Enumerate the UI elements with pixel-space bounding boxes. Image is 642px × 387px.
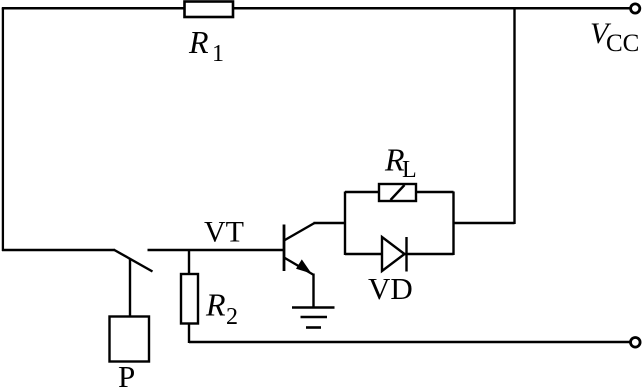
- node output terminal (circle, bottom right): [631, 338, 641, 348]
- label R1: [188, 24, 224, 67]
- resistor R1: [185, 2, 234, 18]
- svg-text:L: L: [402, 157, 417, 183]
- wire collector to load block: [314, 222, 347, 224]
- svg-text:VT: VT: [204, 216, 244, 249]
- wire bottom rail to output terminal: [189, 341, 630, 343]
- wire left vertical: [2, 8, 4, 251]
- svg-text:1: 1: [212, 41, 224, 67]
- wire load block top (through RL): [345, 191, 454, 193]
- wire base wire to R2: [188, 250, 190, 275]
- resistor R2: [181, 274, 198, 324]
- label VD: [368, 271, 413, 306]
- wire load block to VCC branch: [454, 222, 515, 224]
- label VT: [204, 216, 244, 249]
- ground: [292, 308, 335, 328]
- svg-text:R: R: [188, 24, 209, 60]
- wire top horizontal to VCC terminal: [2, 7, 630, 10]
- svg-text:VD: VD: [368, 271, 413, 306]
- wire load block bottom (through VD): [345, 253, 454, 255]
- transistor VT (NPN): [284, 223, 315, 275]
- wire emitter down: [312, 274, 314, 308]
- label P: [118, 359, 135, 387]
- wire base horizontal (switch to VT base): [148, 249, 286, 251]
- wire left bottom horizontal (to switch): [2, 249, 115, 251]
- resistor RL (relay/load, box with slash): [379, 184, 416, 201]
- wire load block left vertical: [344, 192, 346, 256]
- label R2: [205, 287, 238, 331]
- sensor P (box): [110, 317, 150, 362]
- wire load block right vertical: [452, 192, 454, 256]
- svg-text:2: 2: [226, 304, 238, 330]
- wire R2 to bottom rail: [188, 324, 190, 344]
- svg-text:CC: CC: [606, 30, 639, 57]
- wire VCC branch vertical (right): [513, 8, 515, 224]
- node VCC terminal (circle): [631, 4, 640, 13]
- diode VD: [382, 237, 407, 272]
- label RL: [384, 142, 417, 184]
- switch blade (pressure-actuated contact): [114, 250, 153, 272]
- svg-text:R: R: [205, 287, 226, 323]
- wire switch to P sensor: [129, 259, 131, 318]
- svg-text:P: P: [118, 359, 135, 387]
- label VCC: [590, 17, 639, 57]
